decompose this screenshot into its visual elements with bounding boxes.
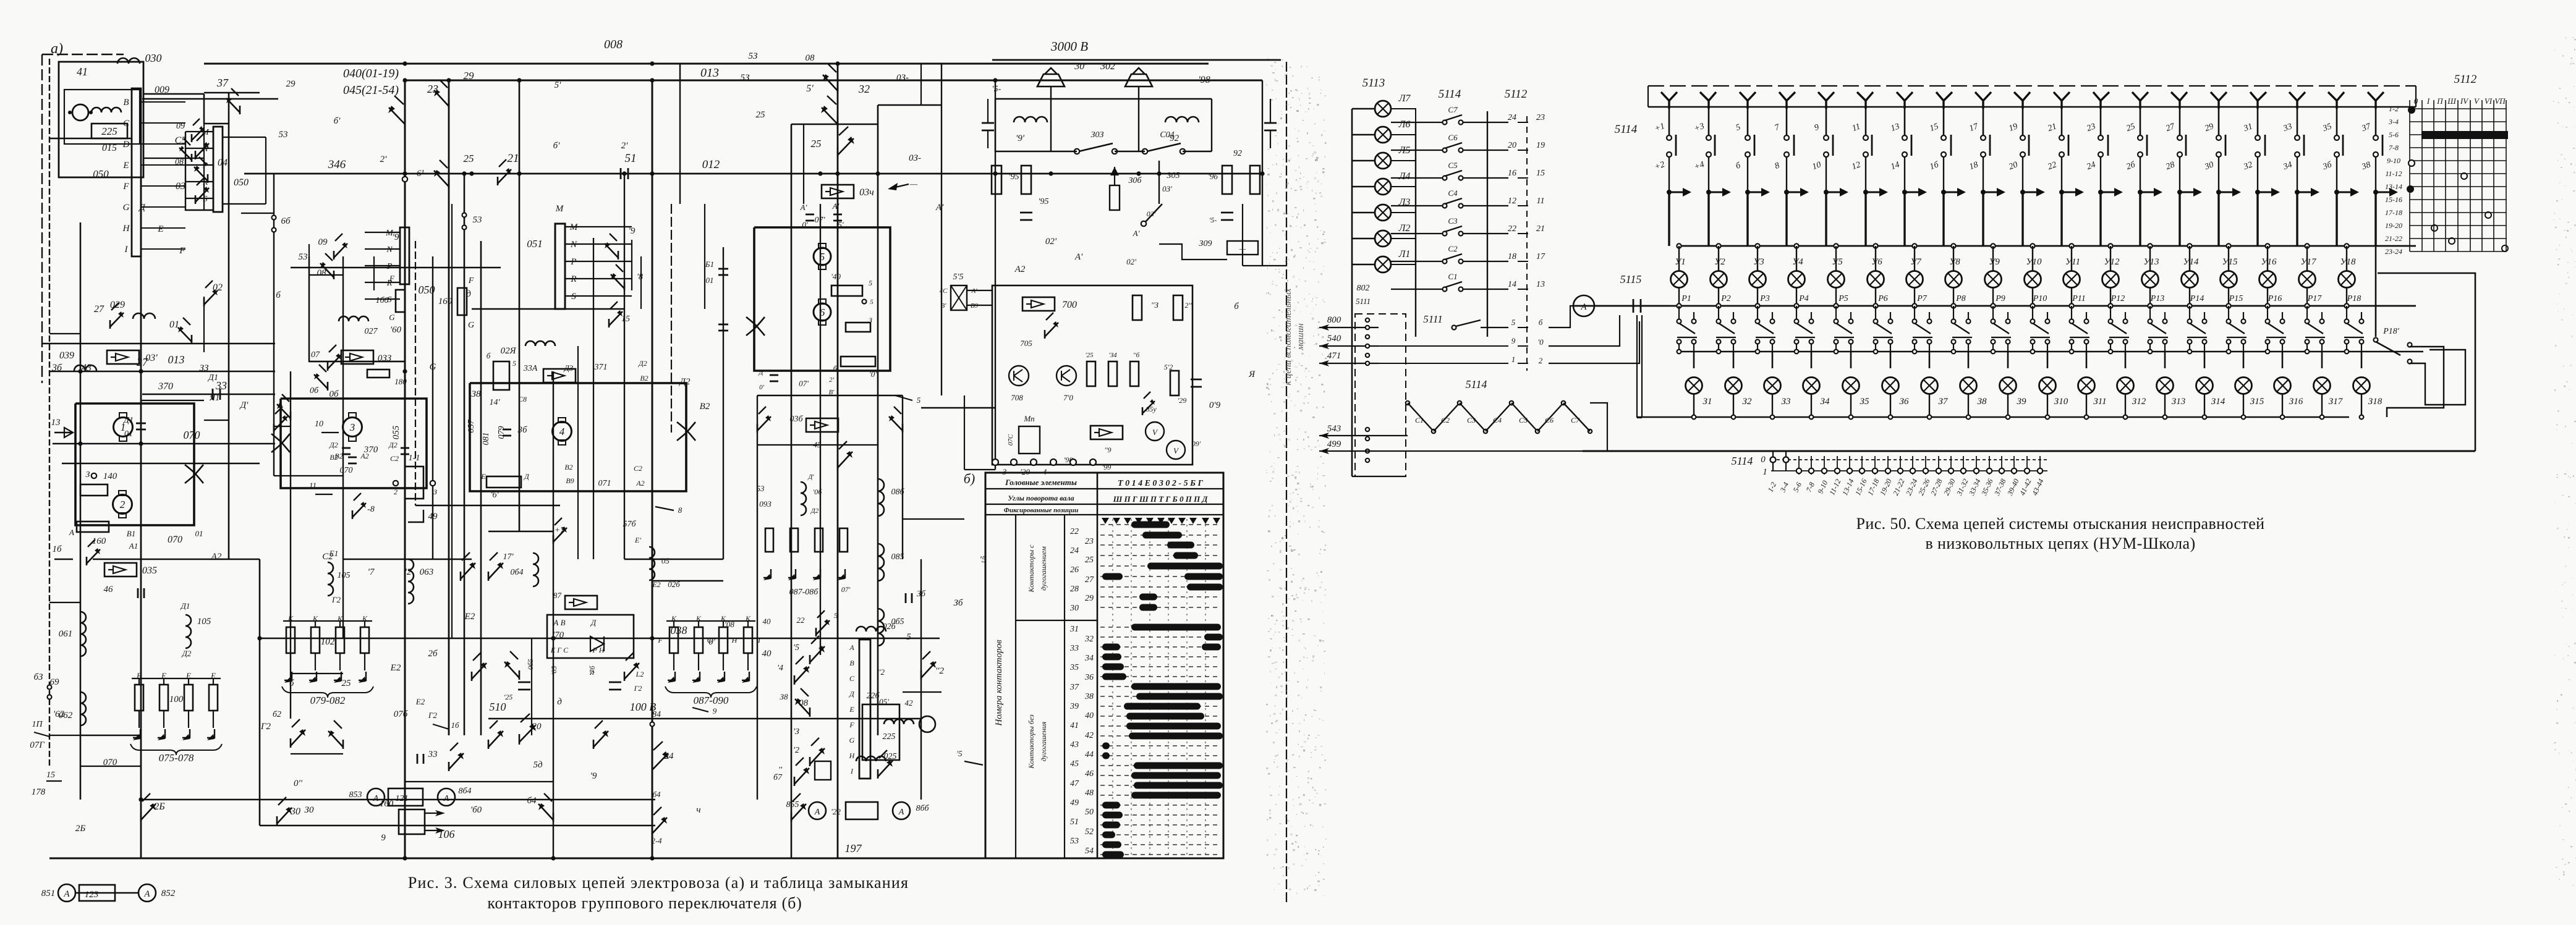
switch A1 [1145, 204, 1162, 222]
wire [757, 395, 758, 800]
lamp Z8 [1960, 378, 1977, 394]
wire [1242, 204, 1243, 266]
cap 198b [1264, 122, 1277, 124]
table stripe row [1100, 524, 1221, 525]
probe antenna col8 [1936, 92, 1952, 109]
wire [1391, 161, 1416, 178]
probe antenna col5 [1818, 92, 1834, 109]
wire [1982, 192, 1984, 246]
wire [2125, 394, 2126, 417]
scan noise strip [1285, 184, 1287, 184]
wire [405, 781, 553, 782]
label 66 [272, 216, 276, 220]
diode box 170 [547, 615, 634, 658]
junction [469, 171, 474, 175]
wire [1785, 451, 1787, 471]
wire [754, 370, 890, 371]
switch 160 [399, 809, 425, 834]
table header sep1 [985, 488, 1223, 489]
grid col line [2470, 100, 2471, 251]
probe antenna col15 [2211, 92, 2227, 109]
wire [2218, 157, 2219, 190]
wire [2306, 246, 2308, 271]
wire [1693, 394, 1694, 417]
motor loop 4 [754, 227, 890, 371]
tick terminal [1847, 468, 1852, 473]
wire [593, 238, 594, 559]
left connector dashed box [1355, 314, 1406, 476]
junction [517, 78, 521, 82]
table stripe row [1100, 716, 1221, 717]
table stripe row [1100, 596, 1221, 598]
junction [1834, 243, 1838, 248]
junction [462, 171, 466, 175]
wire loop2 [2410, 350, 2465, 405]
tick [1900, 456, 1901, 475]
wire [1890, 352, 1892, 368]
relay 033 [341, 350, 373, 364]
coil 026 [856, 627, 886, 631]
grid col line [2409, 100, 2410, 251]
isolator bar [1754, 135, 1756, 156]
plug arrow col17 [2295, 190, 2300, 195]
contact [757, 424, 759, 433]
motor M2 [113, 495, 132, 514]
wire [803, 124, 804, 204]
wire [2321, 352, 2323, 368]
wire [1668, 157, 1670, 190]
junction [2123, 415, 2128, 420]
loop 040 [185, 132, 213, 210]
grid dot [2407, 186, 2413, 192]
table stripe row [1100, 814, 1221, 816]
junction [2265, 303, 2269, 308]
tick terminal [1974, 468, 1979, 473]
wire [1835, 288, 1837, 306]
top bus box [1648, 85, 2416, 87]
tick [1861, 456, 1863, 475]
junction [2046, 415, 2050, 420]
terminal 61 [402, 177, 407, 182]
wire [308, 244, 310, 361]
wire [1391, 264, 1416, 289]
wire [791, 124, 878, 125]
contact 16a [86, 557, 88, 565]
table header sep2 [985, 504, 1223, 505]
lamp U18 [2339, 271, 2355, 288]
plug arrow col3 [1745, 190, 1750, 195]
relay contact P16 [2266, 319, 2270, 324]
wire [1518, 150, 1528, 151]
wire [2099, 192, 2101, 246]
relay contact P11 [2070, 319, 2074, 324]
grid col line [2433, 100, 2434, 251]
coil 225b [862, 704, 899, 760]
wire [1875, 246, 1876, 271]
wire [2100, 100, 2102, 135]
ladder right rail [1487, 111, 1488, 337]
contact 07b [327, 362, 329, 371]
motor loop 2 [281, 399, 427, 488]
junction [2085, 415, 2089, 420]
switch 304 [1147, 143, 1181, 151]
wire [1693, 352, 1695, 368]
contact 09 [333, 251, 335, 260]
wire [1733, 394, 1734, 417]
wire [553, 371, 554, 858]
wire [995, 151, 1077, 152]
wire [1811, 352, 1813, 368]
wire [1718, 288, 1719, 306]
wire row 33 [42, 343, 275, 345]
contact [290, 412, 292, 420]
contact 14 [794, 675, 796, 685]
grid dot [2461, 173, 2467, 179]
contact 18 [624, 282, 626, 290]
switch S1 lower [1406, 401, 1409, 405]
terminal 32 [2255, 152, 2260, 157]
terminal +3 [1706, 135, 1711, 140]
wire [1518, 177, 1528, 179]
wire [1785, 192, 1787, 246]
wire loop right [2387, 347, 2444, 417]
wire [274, 475, 343, 476]
cap e [1020, 212, 1032, 214]
relay 033b [543, 369, 576, 382]
contact 30 [276, 816, 278, 826]
wire [1352, 476, 1406, 477]
wire [2100, 157, 2101, 190]
junction [1873, 303, 1877, 308]
res 195b [1021, 166, 1031, 194]
res 141 [493, 361, 509, 390]
contact 13 [809, 707, 811, 717]
wire [1262, 80, 1263, 266]
wire [1983, 157, 1984, 190]
ammeter 851 [58, 884, 75, 902]
tick terminal [1835, 468, 1840, 473]
wire [464, 174, 465, 735]
switch 303 [1079, 143, 1113, 151]
wire [2032, 246, 2033, 271]
junction [2070, 350, 2074, 354]
table stripe row [1100, 854, 1221, 855]
contact 15 [608, 319, 610, 327]
junction [1756, 350, 1760, 354]
wire [2110, 288, 2111, 306]
contact 01 [191, 335, 193, 344]
wire [2179, 192, 2180, 246]
table stripe row [1100, 755, 1221, 756]
junction [1834, 303, 1838, 308]
lamp U14 [2182, 271, 2198, 288]
switch С4 row wire [1391, 205, 1443, 206]
table stripe row [1100, 834, 1221, 835]
wire [1904, 100, 1906, 135]
arrow 10 [321, 432, 339, 433]
junction [1770, 415, 1775, 420]
junction [1849, 415, 1853, 420]
table grid [1112, 519, 1113, 858]
junction [1991, 243, 1995, 248]
isolator bar [1675, 135, 1677, 156]
junction [2187, 243, 2191, 248]
coil D1c [801, 482, 806, 515]
table stripe row [1100, 534, 1221, 536]
motor M5 [814, 248, 831, 265]
probe antenna col1 [1661, 92, 1677, 109]
wire [309, 274, 343, 276]
grid col line [2421, 100, 2423, 251]
wire [2228, 288, 2229, 306]
contact 25b [837, 147, 839, 158]
wire [920, 64, 922, 105]
rail y495 [1575, 305, 2416, 307]
wire [80, 766, 141, 767]
contact [448, 762, 450, 771]
dash border mid [671, 204, 672, 433]
tick [1874, 456, 1876, 475]
table stripe row [1100, 555, 1221, 556]
connector 5112 dash line [1526, 116, 1528, 371]
contact 09a [191, 134, 193, 142]
wire [1158, 161, 1160, 204]
contact 08a [191, 154, 193, 162]
arrow 9r [692, 707, 708, 712]
contact 85u [1142, 407, 1144, 415]
res bank small [765, 528, 773, 552]
junction [2108, 243, 2112, 248]
switch С5 row wire [1391, 177, 1443, 179]
wire [1518, 233, 1528, 234]
junction [1732, 415, 1736, 420]
wire [1050, 99, 1052, 151]
junction [1677, 350, 1681, 354]
wire [2336, 192, 2337, 246]
wire bus 008 [204, 63, 1209, 65]
resistor bank 075-078 [135, 685, 143, 711]
table stripe row [1100, 696, 1221, 697]
wire [1904, 157, 1905, 190]
junction [2006, 415, 2010, 420]
wire [2375, 100, 2377, 135]
contact 32 [837, 116, 839, 127]
isolator bar [1871, 135, 1873, 156]
lamp Z3 [1764, 378, 1781, 394]
junction [2148, 350, 2153, 354]
wire to 540 [1319, 345, 1379, 347]
wire [1757, 288, 1758, 306]
contact 46 [137, 588, 139, 598]
terminal 9 [1824, 135, 1829, 140]
plug arrow col9 [1981, 190, 1986, 195]
resistor 140 [80, 484, 108, 496]
wire [2346, 288, 2347, 306]
wire [2243, 394, 2244, 417]
wire [488, 531, 553, 532]
wire [1549, 306, 1575, 327]
grid row line [2410, 147, 2506, 148]
wire [1352, 108, 1375, 109]
table stripe row [1100, 706, 1221, 707]
terminal 33 [2295, 135, 2300, 140]
wire [791, 124, 793, 858]
meter V2 [1167, 441, 1185, 459]
wire [531, 638, 532, 735]
wire [2047, 394, 2048, 417]
tick terminal [1910, 468, 1915, 473]
coil 065b [878, 609, 884, 646]
wire [1746, 192, 1748, 246]
terminal +2 [1667, 152, 1672, 157]
wire [1678, 288, 1680, 306]
terminal 37 [2373, 135, 2378, 140]
arrester 306 [1110, 185, 1120, 210]
wire [652, 80, 653, 858]
wire [1352, 160, 1375, 161]
wire [754, 227, 890, 228]
grid row line [2410, 186, 2506, 187]
plug arrow col13 [2138, 190, 2143, 195]
relay 1-1 [405, 467, 423, 499]
wire [142, 98, 278, 99]
wire [2361, 352, 2363, 368]
wire left bus [1351, 109, 1353, 476]
wire [1914, 288, 1915, 306]
contact 11 [794, 777, 796, 786]
junction [1912, 243, 1916, 248]
lamp U7 [1906, 271, 1923, 288]
isolator bar [2028, 135, 2030, 156]
wire [2218, 100, 2220, 135]
tick [1849, 456, 1850, 475]
wire [2297, 100, 2298, 135]
connector 515 [951, 285, 967, 310]
wire [291, 673, 343, 674]
isolator bar [2382, 135, 2384, 156]
table stripe row [1100, 666, 1221, 667]
grid dot [2449, 238, 2455, 244]
control block border [992, 285, 1192, 465]
isolator bar [1911, 135, 1913, 156]
terminal 31 [2255, 135, 2260, 140]
connector terminal [1366, 437, 1369, 441]
plug arrow col2 [1706, 190, 1711, 195]
wire [274, 426, 291, 427]
wire [1379, 345, 1508, 347]
wire [877, 105, 879, 735]
wire [1707, 192, 1709, 246]
junction [2360, 415, 2364, 420]
probe antenna col16 [2250, 92, 2266, 109]
wire [2297, 157, 2298, 190]
tick terminal [2038, 468, 2043, 473]
contact 27 [109, 320, 111, 329]
cap g [1191, 379, 1202, 381]
junction [402, 369, 407, 373]
wire [1929, 352, 1931, 368]
lamp U16 [2259, 271, 2276, 288]
plug arrow col19 [2373, 190, 2378, 195]
cap D1 [136, 423, 146, 424]
wire [1992, 246, 1994, 271]
junction [1716, 303, 1720, 308]
lamp Z4 [1803, 378, 1820, 394]
relay 035 [104, 563, 137, 577]
motor loop 3 [470, 383, 686, 491]
wire [1772, 394, 1773, 417]
wire [2257, 100, 2259, 135]
tick terminal [1885, 468, 1890, 473]
grid row line [2410, 173, 2506, 174]
wire [80, 222, 82, 800]
lamp Z9 [2000, 378, 2017, 394]
grid col line [2445, 100, 2446, 251]
tick terminal [1949, 468, 1953, 473]
coil 192 [1165, 117, 1199, 122]
wire [2179, 100, 2181, 135]
wire [1518, 122, 1528, 123]
isolator bar [2107, 135, 2109, 156]
reverser X1 [185, 465, 203, 483]
bottom rail y730 [1583, 450, 2475, 452]
grid row line [2410, 251, 2506, 252]
coil 105 [185, 615, 191, 648]
tick terminal [1809, 468, 1814, 473]
res 116 [1130, 361, 1139, 386]
arrow 11 [315, 494, 333, 495]
wire [964, 395, 965, 470]
junction [2163, 415, 2167, 420]
coil 064 [533, 553, 538, 586]
plug arrow col18 [2334, 190, 2339, 195]
junction [1951, 303, 1955, 308]
junction [1048, 171, 1053, 175]
cap 15a [982, 122, 994, 124]
tick [1798, 456, 1800, 475]
coil [91, 108, 121, 112]
wire [49, 735, 141, 736]
double line 5115 [1636, 315, 1638, 418]
table stripe row [1100, 844, 1221, 845]
aux machine inner box [64, 90, 140, 144]
relay contact P18 [2345, 319, 2349, 324]
wire [1864, 192, 1866, 246]
lamp Z2 [1725, 378, 1742, 394]
resistor bank 087-090 [670, 627, 678, 653]
lamp U11 [2064, 271, 2080, 288]
wire [1943, 100, 1945, 135]
tick terminal [2025, 468, 2030, 473]
switch S3 lower [1458, 401, 1461, 405]
junction [2030, 243, 2034, 248]
wire [1668, 192, 1670, 246]
wire [1678, 246, 1680, 271]
contact 37 [239, 106, 241, 114]
contact 45 [837, 460, 839, 470]
tick [2039, 456, 2041, 475]
arrow 16 [54, 559, 73, 560]
lamp U8 [1945, 271, 1962, 288]
junction [2148, 303, 2152, 308]
wire [1747, 100, 1749, 135]
lamp U13 [2142, 271, 2159, 288]
wire [142, 394, 275, 395]
junction [2226, 303, 2230, 308]
junction [78, 369, 82, 373]
junction [2305, 243, 2309, 248]
reverser X4 [746, 317, 765, 336]
